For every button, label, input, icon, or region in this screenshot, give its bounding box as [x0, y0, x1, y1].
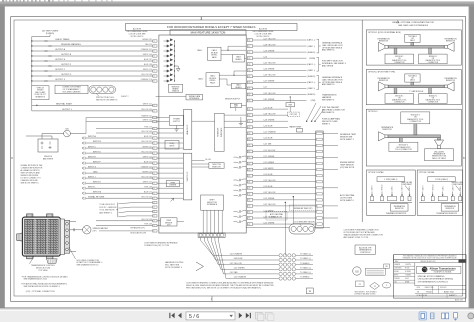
svg-text:35: 35 [248, 133, 250, 135]
svg-text:ORANGE 116: ORANGE 116 [141, 115, 152, 118]
pin right low 18 [247, 211, 252, 214]
wire fan C42 YELLOW [208, 238, 279, 265]
wire analog y173.1 [157, 172, 183, 174]
svg-text:OUTPUT C: OUTPUT C [55, 69, 66, 71]
diamond symbol [370, 282, 380, 289]
module 1 box [385, 54, 414, 64]
svg-text:YELLOW 162: YELLOW 162 [141, 151, 152, 153]
svg-text:RESISTOR: RESISTOR [379, 80, 389, 82]
leader TCM label [30, 256, 35, 264]
svg-text:OUTPUT 1: OUTPUT 1 [62, 109, 73, 111]
svg-text:OPTION 2 DETAIL: OPTION 2 DETAIL [419, 171, 435, 174]
wire selector drop 5 [217, 210, 219, 233]
box vehicle interface note [32, 86, 49, 100]
module 1 drop [394, 48, 397, 54]
svg-text:TO CAN 1 (-): TO CAN 1 (-) [300, 257, 311, 260]
svg-text:C-17 YELLOW: C-17 YELLOW [263, 38, 275, 40]
wire input INPUT A [82, 137, 85, 140]
wire output stub OUTPUT D [31, 75, 32, 76]
terminal left pin y163.1 [153, 162, 157, 164]
connector pair y211.5 [234, 210, 247, 212]
wire analog y148.1 [157, 147, 183, 149]
wire serial link [156, 96, 186, 98]
svg-text:46: 46 [248, 200, 250, 202]
wire output stub OUTPUT F [31, 65, 32, 66]
terminal left pin y138.0 [153, 137, 157, 139]
pin right low 10 [247, 162, 252, 165]
svg-text:DWG NO: DWG NO [440, 287, 447, 289]
svg-text:TO CAN 2 (+): TO CAN 2 (+) [300, 267, 311, 270]
svg-text:TO SHIELD: TO SHIELD [300, 263, 310, 265]
wire output stub OUTPUT 3 [31, 80, 32, 81]
svg-text:(CAN 1 -): (CAN 1 -) [307, 45, 315, 48]
svg-text:WHITE 104: WHITE 104 [143, 54, 152, 56]
disabled rotate icons [256, 312, 263, 319]
svg-text:INPUT K: INPUT K [93, 181, 102, 183]
connector pair y180.0 [234, 179, 247, 181]
svg-text:INPUT L: INPUT L [88, 186, 97, 188]
view mode icon single (selected) [419, 312, 426, 320]
pin right low 15 [247, 192, 252, 195]
module 2 box [419, 94, 448, 104]
driver symbol y46.0 [164, 44, 173, 48]
svg-text:OUTPUT E: OUTPUT E [55, 59, 66, 61]
terminal left pin y105.3 [153, 104, 157, 106]
wire speedometer [69, 229, 83, 231]
svg-text:TOOL SEE NOTE: TOOL SEE NOTE [99, 210, 115, 212]
svg-text:INPUT E: INPUT E [88, 156, 97, 158]
wire input INPUT F [82, 162, 85, 165]
connector right bracket [60, 219, 64, 255]
junction dots row [306, 121, 307, 122]
bulkhead pin 11 [317, 168, 323, 170]
pin right low 17 [247, 205, 252, 208]
svg-text:40: 40 [248, 163, 250, 165]
detail bus [419, 201, 463, 203]
svg-text:SENSOR SUPPLY: SENSOR SUPPLY [225, 99, 241, 101]
oval symbol [382, 282, 390, 288]
svg-text:FOR 3000/4000 RETARDER MODELS: FOR 3000/4000 RETARDER MODELS EXCEPT 7 S… [167, 25, 255, 29]
svg-text:MODULE 1: MODULE 1 [395, 56, 403, 58]
svg-text:MODULE 2: MODULE 2 [429, 56, 437, 58]
svg-text:5 / 6: 5 / 6 [189, 314, 199, 320]
ground sym internal [176, 66, 180, 71]
J1939 label box [377, 177, 405, 182]
option3 bus [388, 135, 441, 138]
top tiny toolbar icon row [2, 0, 113, 1]
small box notes [365, 268, 385, 275]
wire C-08 YELLOW [253, 45, 307, 47]
svg-text:TO SHIELD: TO SHIELD [300, 277, 310, 279]
wire C-18 GREEN [253, 51, 307, 53]
pin right low 5 [247, 132, 252, 135]
battery BT1 [38, 139, 58, 152]
bulkhead pin 8 [317, 150, 323, 152]
termination resistor box [391, 204, 409, 211]
wire input INPUT D [82, 152, 85, 155]
wire DOC 2 [119, 206, 153, 209]
svg-text:INTERFACE: INTERFACE [189, 97, 200, 100]
svg-text:BREAKER 8: BREAKER 8 [36, 96, 46, 99]
detail bus [369, 201, 413, 203]
svg-text:(OP): (OP) [167, 225, 171, 227]
svg-text:CONNECTOR: CONNECTOR [394, 101, 405, 103]
svg-text:ORANGE 107: ORANGE 107 [141, 48, 152, 51]
svg-text:13: 13 [374, 286, 376, 288]
dashed box retarder temp op [290, 205, 318, 211]
pin right 5 [247, 63, 252, 66]
pin right low 3 [247, 120, 252, 123]
terminal left pin y133.0 [153, 132, 157, 134]
svg-text:73342: 73342 [426, 291, 432, 293]
wire bulkhead out y133.3 [323, 132, 338, 134]
svg-text:SIGNAL RETURN: SIGNAL RETURN [88, 195, 105, 198]
svg-text:AS07-532: AS07-532 [444, 290, 455, 293]
svg-text:49: 49 [248, 218, 250, 220]
bus backbone [388, 46, 444, 49]
svg-text:(SHIELD): (SHIELD) [307, 76, 315, 78]
strip pin 1 [199, 234, 202, 237]
wire selector drop 4 [214, 210, 216, 233]
terminal left pin y76.0 [153, 75, 157, 77]
bulkhead pin 20 [317, 223, 323, 225]
strip pin 6 [217, 234, 220, 237]
page number field [186, 312, 235, 320]
wire strip link [192, 120, 215, 122]
svg-text:ORANGE 151: ORANGE 151 [141, 165, 152, 168]
pin right low 8 [247, 150, 252, 153]
svg-text:REVISION HISTORY: REVISION HISTORY [420, 261, 436, 263]
inline connector circles [89, 86, 116, 94]
diagonal wires to notes [307, 103, 316, 121]
svg-text:YELLOW 130: YELLOW 130 [141, 109, 152, 111]
svg-text:YELLOW 164: YELLOW 164 [141, 176, 152, 178]
svg-text:CAN 1: CAN 1 [197, 49, 202, 52]
svg-text:C42 YELLOW: C42 YELLOW [230, 263, 242, 265]
svg-text:RESISTOR: RESISTOR [446, 208, 455, 210]
wire input INPUT G [82, 167, 85, 170]
wire analog y153.1 [157, 152, 183, 154]
terminal left pin y168.1 [153, 167, 157, 169]
svg-text:OUTPUT A: OUTPUT A [55, 48, 66, 51]
svg-text:RESISTOR: RESISTOR [379, 41, 389, 43]
svg-text:DEFINITIONS AND NOTES: DEFINITIONS AND NOTES [355, 293, 377, 296]
box optional circuit breaker note [55, 85, 88, 94]
svg-text:FOR PC - SERVICE: FOR PC - SERVICE [99, 207, 117, 209]
pin right 8 [247, 81, 252, 84]
svg-text:CAN 2: CAN 2 [198, 78, 203, 81]
wire DOC 3 [119, 211, 153, 214]
small box fe [384, 264, 390, 268]
wire analog y168.1 [157, 167, 183, 169]
module 1 drop [394, 88, 397, 94]
svg-text:OUTPUT B: OUTPUT B [61, 54, 72, 56]
terminal left pin y230.9 [153, 230, 157, 232]
terminal left pin y66.0 [153, 65, 157, 67]
strip pin 3 [207, 234, 210, 237]
wire output stub OUTPUT E [31, 60, 32, 61]
wire C-07 GREEN [253, 81, 307, 83]
svg-text:12: 12 [248, 52, 250, 54]
svg-text:(SHIELD): (SHIELD) [307, 94, 315, 96]
svg-text:14: 14 [248, 64, 250, 66]
TCM node box [405, 34, 420, 42]
option3 module2 box [389, 142, 418, 151]
svg-text:SEE SHEET 6: SEE SHEET 6 [322, 112, 334, 114]
svg-text:39: 39 [248, 157, 250, 159]
svg-text:18: 18 [248, 88, 250, 90]
terminal left pin y71.0 [153, 70, 157, 72]
svg-text:(OP): (OP) [93, 231, 97, 233]
svg-text:MAX-FEATURE 14X8I TCM: MAX-FEATURE 14X8I TCM [191, 31, 226, 35]
pin right low 13 [247, 180, 252, 183]
analog interface strip lower [183, 153, 191, 200]
svg-text:INPUT G: INPUT G [88, 166, 97, 168]
svg-text:PINK 172: PINK 172 [144, 127, 152, 129]
svg-text:RESISTOR: RESISTOR [382, 129, 392, 131]
svg-text:SUPPLY: SUPPLY [173, 121, 181, 123]
svg-text:CAN 2: CAN 2 [410, 39, 415, 42]
pin right low 20 [247, 223, 252, 226]
box speed sensor interface [201, 195, 224, 210]
terminal left pin y143.0 [153, 142, 157, 144]
bulkhead pin 19 [317, 217, 323, 219]
pin right low 1 [247, 108, 252, 111]
svg-text:C-06 YELLOW: C-06 YELLOW [263, 75, 275, 77]
wire battery positive [41, 134, 43, 140]
bracket hole 2 [66, 229, 69, 232]
svg-text:36: 36 [248, 139, 250, 141]
svg-text:SIZE: SIZE [417, 287, 420, 289]
svg-text:SEE NOTE SHEET 6.: SEE NOTE SHEET 6. [21, 183, 40, 185]
svg-text:J 1939 (CAN 1): J 1939 (CAN 1) [384, 178, 397, 181]
svg-text:FACE: FACE [210, 82, 215, 85]
power bus vertical wire [31, 37, 33, 86]
left window strip [0, 6, 4, 308]
svg-text:TAN 105: TAN 105 [145, 43, 152, 46]
svg-text:BLUE 171: BLUE 171 [144, 191, 152, 193]
wires retarder box to pins [224, 114, 246, 116]
svg-text:04-02: 04-02 [405, 278, 409, 280]
wire input INPUT K [82, 182, 85, 185]
nav last button [246, 313, 249, 318]
driver symbol y56.0 [164, 54, 173, 58]
svg-text:C41 GREEN: C41 GREEN [234, 268, 245, 270]
svg-text:BATTERIES: BATTERIES [43, 157, 54, 160]
bulkhead pin 9 [317, 156, 323, 158]
svg-text:WHITE 101: WHITE 101 [143, 103, 152, 105]
terminal left pin y198.2 [153, 197, 157, 199]
wire selector drop 3 [210, 210, 212, 233]
driver symbol y61.0 [164, 59, 173, 63]
svg-text:MODULE 2: MODULE 2 [429, 95, 437, 97]
wire NEUTRAL START [31, 100, 33, 111]
terminal left pin y193.2 [153, 192, 157, 194]
terminal left pin y121.5 [153, 120, 157, 122]
svg-text:C43 TAN: C43 TAN [230, 271, 238, 274]
svg-text:T WEBB: T WEBB [405, 275, 411, 277]
svg-text:VEHICLE OEM. WHEN MODULES ARE: VEHICLE OEM. WHEN MODULES ARE PRESENT TH… [186, 284, 275, 287]
ignition switch S1 [64, 130, 71, 137]
svg-text:CONTROLS: CONTROLS [360, 252, 371, 254]
CAN1 wires [221, 49, 246, 51]
internal rail [174, 41, 176, 81]
J1939 label box [428, 177, 456, 182]
left field column [414, 263, 416, 286]
svg-text:C-06 GREEN: C-06 GREEN [263, 69, 275, 71]
option3 module1 box [401, 112, 430, 124]
wire DOC 1 [119, 202, 153, 205]
svg-text:(CAN 2 -): (CAN 2 -) [307, 87, 315, 90]
bulkhead pin 18 [317, 211, 323, 213]
box service brake status [168, 84, 182, 92]
view mode icon two-page [442, 313, 445, 319]
view mode icon continuous [431, 313, 434, 319]
pin right 4 [247, 57, 252, 60]
terminal left pin y215.9 [153, 215, 157, 217]
wire temp sensor stub [157, 220, 161, 222]
pin right 3 [247, 51, 252, 54]
svg-text:AND SHEET 6 REF. TO TCM: AND SHEET 6 REF. TO TCM [344, 236, 369, 239]
pin right low 12 [247, 174, 252, 177]
svg-text:NOTE ON SHEET 4: NOTE ON SHEET 4 [165, 267, 182, 269]
terminal left pin y81.0 [153, 80, 157, 82]
svg-text:'T' CAN MODULE: 'T' CAN MODULE [409, 90, 424, 93]
wire input INPUT L [82, 187, 85, 190]
wire C-06 GREEN [253, 69, 307, 71]
svg-text:9: 9 [386, 285, 387, 287]
svg-text:TOOL CONNECTOR: TOOL CONNECTOR [395, 149, 413, 151]
TCM module outline U1 [159, 35, 246, 233]
svg-text:(CAN 1 +): (CAN 1 +) [307, 63, 316, 66]
svg-text:WHITE 157: WHITE 157 [143, 181, 152, 183]
svg-text:4TH GENERATION CONTROLS: 4TH GENERATION CONTROLS [418, 280, 449, 283]
svg-text:WHITE 113: WHITE 113 [143, 69, 152, 71]
driver symbol y71.0 [164, 69, 173, 73]
svg-text:WHITE 142: WHITE 142 [143, 156, 152, 158]
svg-text:TO CAN 2 (-): TO CAN 2 (-) [300, 271, 311, 274]
bracket hole 3 [66, 235, 69, 238]
terminal left pin y46.0 [153, 45, 157, 47]
svg-text:CONNECTOR: CONNECTOR [428, 101, 439, 103]
svg-text:NOTE SHEET 6: NOTE SHEET 6 [340, 200, 354, 202]
svg-text:(SHIELD): (SHIELD) [307, 52, 315, 54]
svg-text:ANALOG I/F: ANALOG I/F [186, 124, 189, 135]
svg-text:GREEN 139: GREEN 139 [142, 39, 152, 41]
bulkhead pin 10 [317, 162, 323, 164]
option3 right drop + funnel down [438, 138, 441, 140]
size row [415, 285, 466, 287]
terminal left pin y148.1 [153, 147, 157, 149]
bulkhead strip right [316, 131, 324, 228]
option3 module2 drop [399, 138, 402, 143]
top gray bar [0, 1, 474, 3]
svg-text:J 1939 (CAN 2): J 1939 (CAN 2) [435, 178, 448, 181]
wire temp sensor to strip [177, 221, 184, 223]
terminal left pin y158.1 [153, 157, 157, 159]
box freq input [165, 141, 179, 150]
svg-text:(CAN 1 +): (CAN 1 +) [307, 39, 316, 42]
pin right low 19 [247, 217, 252, 220]
svg-text:BLUE 151: BLUE 151 [144, 161, 152, 163]
pin right low 9 [247, 156, 252, 159]
svg-text:SEE SHEET 3: SEE SHEET 3 [322, 99, 334, 101]
svg-text:33: 33 [248, 121, 250, 123]
bracket hole 1 [66, 222, 69, 225]
wire input INPUT B [82, 142, 85, 145]
wire C-06 YELLOW [253, 75, 307, 77]
svg-text:48: 48 [248, 212, 250, 214]
wire C-05 YELLOW [253, 63, 307, 65]
svg-text:ISSUED: ISSUED [394, 278, 401, 280]
connector pair y185.1 [234, 184, 247, 186]
box CAN2 shield [231, 83, 245, 89]
pin right low 7 [247, 144, 252, 147]
wire input INPUT C [82, 147, 85, 150]
svg-text:OPTION 3: OPTION 3 [368, 111, 378, 113]
TCM bottom connector strip J2 [198, 233, 225, 238]
arrow mark [171, 198, 174, 201]
option3 tcm box [425, 149, 454, 161]
svg-text:SHIELD: SHIELD [235, 59, 242, 61]
right partial icon [468, 313, 474, 319]
pin right low 11 [247, 168, 252, 171]
TCM title box [170, 30, 246, 35]
svg-text:GREEN 122: GREEN 122 [142, 146, 152, 148]
svg-text:C-16: C-16 [263, 56, 267, 58]
bracket hole 4 [66, 242, 69, 245]
wire output stub REVERSE WARNING [31, 45, 32, 46]
pin right low 16 [247, 198, 252, 201]
CAN2 wires [219, 74, 246, 76]
strip pin 5 [214, 234, 217, 237]
pin right 2 [247, 45, 252, 48]
svg-text:STATUS: STATUS [172, 90, 180, 93]
wireless VIM connector row [246, 227, 289, 229]
wire analog y183.2 [157, 182, 183, 184]
svg-text:AND SHEET 6.: AND SHEET 6. [322, 83, 335, 86]
svg-text:RESISTOR: RESISTOR [395, 208, 404, 210]
wire power rows to strip [157, 128, 183, 130]
wire analog y138.0 [157, 137, 183, 139]
svg-text:TO ALLISON DOC: TO ALLISON DOC [99, 203, 115, 206]
svg-text:WATER TEMP: WATER TEMP [289, 126, 302, 129]
wire bulkhead out y187.8 [323, 187, 338, 189]
module 2 box [419, 54, 448, 64]
svg-text:47: 47 [248, 206, 250, 208]
wire bulkhead out y205.9 [323, 205, 338, 207]
svg-text:NOTE SHEET 3: NOTE SHEET 3 [340, 139, 354, 141]
wires water temp [289, 97, 291, 103]
zone tick bottom [211, 296, 213, 302]
separator line options column [361, 20, 363, 222]
svg-text:CONNECTOR: CONNECTOR [410, 121, 422, 123]
wire power row 4 [96, 132, 153, 134]
svg-text:CONNECTOR: CONNECTOR [428, 62, 439, 64]
pin right 10 [247, 93, 252, 96]
svg-text:CKT (OP): CKT (OP) [290, 114, 298, 116]
bulkhead pin 7 [317, 144, 323, 146]
speedometer M1 [83, 226, 91, 234]
svg-text:42: 42 [248, 175, 250, 177]
svg-text:INPUT A: INPUT A [88, 135, 96, 138]
terminal left pin y128.5 [153, 127, 157, 129]
module 2 drop [429, 48, 432, 54]
svg-text:DOC WIRELESS VIM (OP): DOC WIRELESS VIM (OP) [294, 222, 315, 224]
svg-text:YELLOW 163: YELLOW 163 [141, 131, 152, 133]
svg-text:RETARDER TEMP (OP): RETARDER TEMP (OP) [294, 207, 313, 210]
terminal left pin y188.2 [153, 187, 157, 189]
